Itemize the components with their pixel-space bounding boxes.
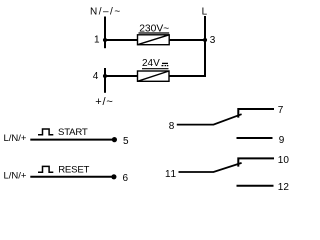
svg-text:9: 9	[279, 135, 285, 146]
svg-text:N/–/~: N/–/~	[90, 7, 122, 18]
svg-text:L/N/+: L/N/+	[4, 170, 27, 181]
svg-text:6: 6	[123, 173, 129, 184]
svg-text:L: L	[202, 6, 208, 17]
svg-text:230V~: 230V~	[139, 23, 169, 34]
svg-text:START: START	[58, 127, 88, 138]
svg-text:11: 11	[165, 169, 177, 180]
svg-text:8: 8	[169, 121, 175, 132]
svg-text:12: 12	[278, 182, 290, 193]
svg-text:4: 4	[93, 71, 99, 82]
svg-text:RESET: RESET	[58, 165, 89, 176]
svg-text:3: 3	[210, 35, 216, 46]
svg-text:10: 10	[278, 155, 290, 166]
svg-text:+/~: +/~	[95, 96, 113, 108]
svg-text:7: 7	[278, 105, 284, 116]
svg-text:24V: 24V	[142, 58, 160, 69]
svg-text:5: 5	[123, 136, 129, 147]
svg-text:1: 1	[94, 35, 100, 46]
svg-text:L/N/+: L/N/+	[4, 133, 27, 144]
